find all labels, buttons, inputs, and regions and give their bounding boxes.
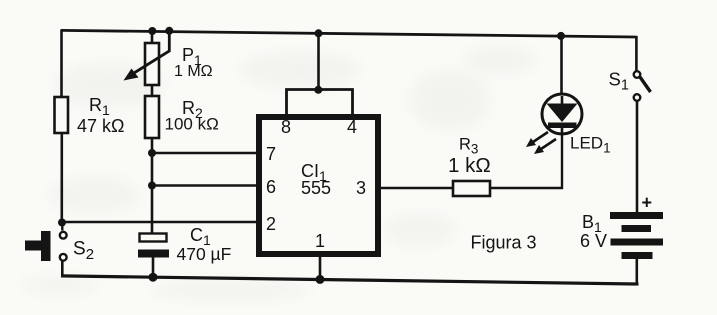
- IC CI1 555 timer: [259, 117, 378, 254]
- svg-text:+: +: [642, 193, 653, 213]
- battery B1: [580, 193, 663, 260]
- potentiometer P1: [124, 31, 213, 85]
- node pin7 junction: [148, 149, 156, 157]
- node S2/pin2 junction: [58, 219, 66, 227]
- wire R2 down to C1: [151, 138, 154, 234]
- wire LED anode: [560, 36, 563, 96]
- svg-text:470 µF: 470 µF: [177, 244, 232, 264]
- svg-text:7: 7: [266, 144, 276, 164]
- node C1 bottom junction: [149, 273, 158, 282]
- svg-text:Figura 3: Figura 3: [471, 233, 537, 253]
- svg-text:555: 555: [301, 178, 331, 198]
- svg-text:1 kΩ: 1 kΩ: [448, 154, 491, 177]
- svg-text:6: 6: [266, 177, 276, 197]
- switch S1: [609, 69, 651, 101]
- wire pin 7: [152, 152, 258, 154]
- node Vcc top: [315, 29, 323, 37]
- svg-text:1 MΩ: 1 MΩ: [174, 63, 213, 80]
- node pin1 bottom junction: [316, 275, 325, 284]
- resistor R1: [55, 97, 69, 133]
- resistor R2: [145, 96, 219, 138]
- wire pin 2: [62, 221, 259, 223]
- wire top rail: [61, 30, 638, 37]
- wire pin 1 to ground rail: [319, 254, 322, 280]
- node pins 8-4 link junction: [314, 86, 322, 94]
- node LED top: [557, 32, 565, 40]
- svg-text:3: 3: [356, 178, 366, 198]
- capacitor C1: [138, 225, 231, 264]
- svg-text:100 kΩ: 100 kΩ: [165, 115, 219, 134]
- wire P1 to R2: [151, 85, 154, 97]
- wire R1 to S2 node: [60, 133, 63, 223]
- wire bottom rail: [61, 276, 639, 284]
- node pin6 junction: [148, 182, 156, 190]
- wire pins 8-4 link: [287, 90, 353, 116]
- svg-text:6 V: 6 V: [580, 231, 607, 251]
- wire R3 to LED: [490, 133, 562, 188]
- svg-text:47 kΩ: 47 kΩ: [77, 116, 124, 136]
- wire top rail right end down: [635, 36, 638, 72]
- node P1 wiper top: [165, 27, 173, 35]
- wire Vcc drop: [317, 33, 320, 90]
- resistor R3: [448, 136, 491, 197]
- wire node to S2 top terminal: [61, 223, 63, 231]
- wire battery to bottom rail: [635, 258, 638, 285]
- svg-text:1: 1: [315, 231, 325, 251]
- svg-text:2: 2: [266, 214, 276, 234]
- wire C1 to bottom rail: [152, 257, 155, 278]
- node P1 top: [148, 27, 156, 35]
- pushbutton S2: [25, 231, 94, 263]
- wire pin 3: [378, 187, 453, 189]
- svg-text:4: 4: [347, 117, 357, 137]
- wire S2 to bottom rail: [61, 261, 64, 277]
- LED LED1: [526, 94, 611, 156]
- svg-text:8: 8: [281, 117, 291, 137]
- wire left rail upper: [60, 30, 63, 99]
- wire S1 to battery: [636, 101, 639, 214]
- wire pin 6: [152, 184, 258, 186]
